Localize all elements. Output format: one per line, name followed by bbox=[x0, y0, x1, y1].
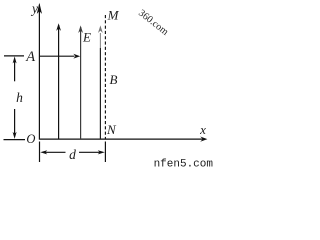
h dimension bottom bar bbox=[4, 139, 26, 141]
svg-text:M: M bbox=[107, 7, 120, 22]
d dimension right tick bbox=[104, 142, 106, 163]
h up arrow bbox=[14, 61, 16, 82]
svg-text:360.com: 360.com bbox=[136, 8, 170, 38]
field arrow 3 (gray) bbox=[99, 33, 101, 48]
svg-text:B: B bbox=[110, 72, 118, 87]
y-axis bbox=[38, 5, 40, 140]
velocity arrow from A bbox=[39, 55, 74, 57]
y-axis arrowhead bbox=[37, 3, 42, 14]
dashed boundary line MN bbox=[104, 15, 106, 139]
h down arrow bbox=[14, 109, 16, 135]
field arrow 2 (dark gray) bbox=[80, 27, 82, 139]
svg-text:h: h bbox=[16, 90, 23, 105]
svg-text:O: O bbox=[26, 132, 35, 146]
svg-text:x: x bbox=[199, 122, 206, 137]
d dimension left arrow bbox=[45, 151, 66, 153]
x-axis arrowhead bbox=[200, 137, 207, 142]
svg-text:N: N bbox=[106, 122, 117, 137]
svg-text:d: d bbox=[69, 147, 76, 162]
svg-text:nfen5.com: nfen5.com bbox=[154, 159, 213, 170]
field arrow 1 (black) bbox=[58, 25, 60, 139]
x-axis bbox=[39, 138, 205, 140]
h dimension top bar bbox=[4, 55, 24, 57]
svg-text:E: E bbox=[82, 29, 91, 44]
d dimension right arrow bbox=[79, 151, 101, 153]
d dimension left tick bbox=[39, 142, 41, 163]
svg-text:A: A bbox=[25, 49, 35, 65]
svg-text:y: y bbox=[30, 1, 38, 16]
